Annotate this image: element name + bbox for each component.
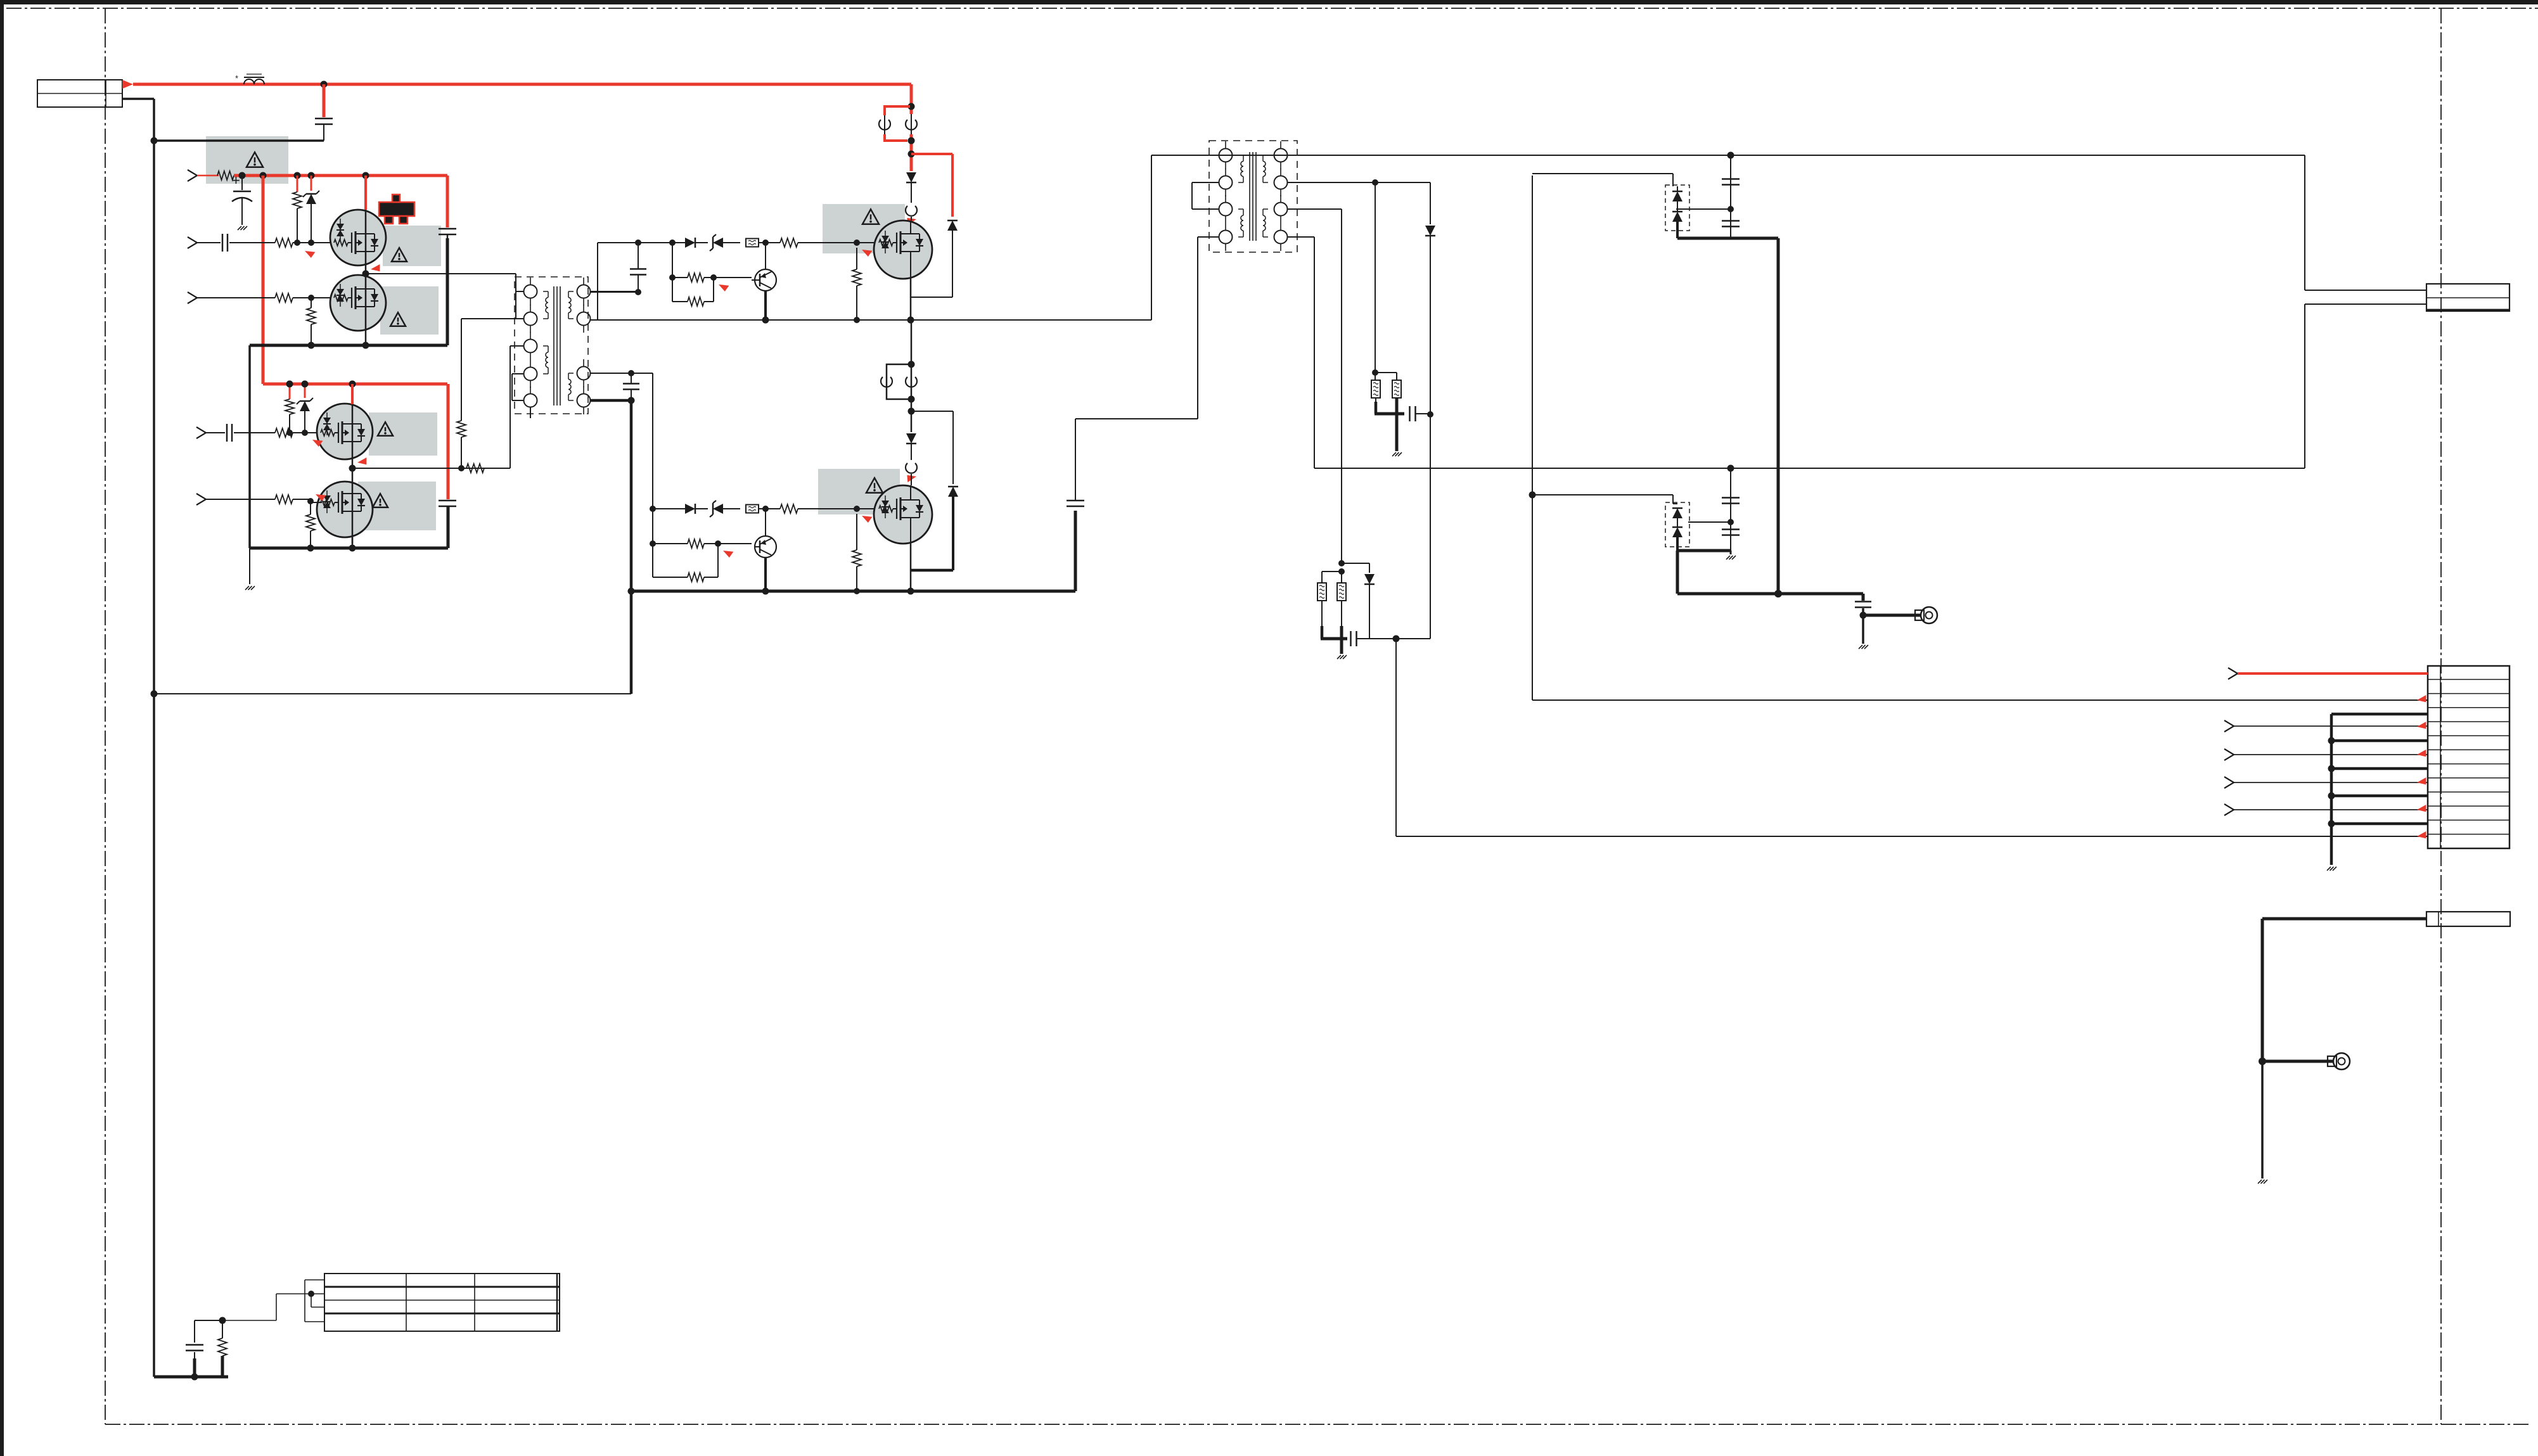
svg-text:+: + <box>232 172 240 188</box>
svg-text:*: * <box>235 73 238 83</box>
